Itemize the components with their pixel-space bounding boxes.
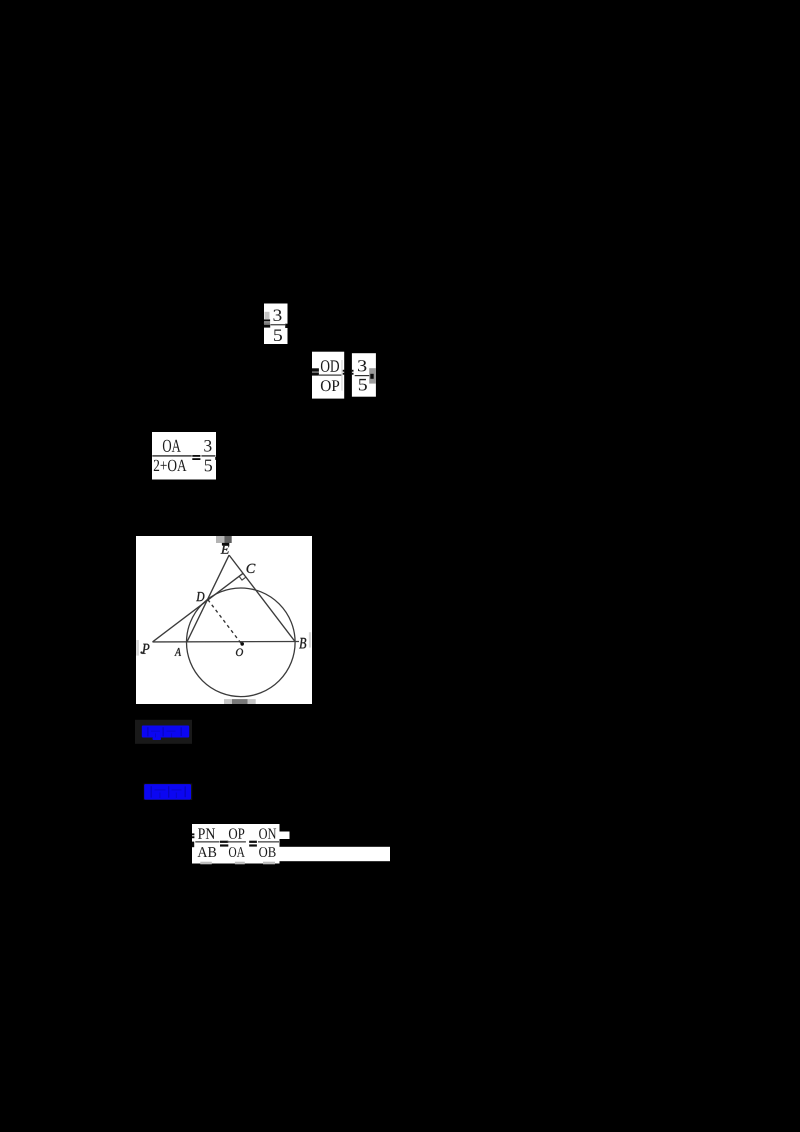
numerator PN — [198, 828, 215, 839]
right caret bar — [309, 632, 311, 647]
fraction bar — [355, 375, 370, 376]
fraction bar 3 — [258, 841, 279, 842]
denominator 5 — [359, 379, 367, 391]
formula "OA/(2+OA)=3/5," white box — [152, 432, 216, 480]
label P — [142, 644, 150, 654]
fraction bar — [201, 455, 215, 456]
equals sign — [192, 455, 200, 457]
comma fragment at edge — [215, 457, 216, 460]
denominator OB — [259, 847, 276, 857]
equals 1 — [220, 841, 228, 843]
numerator OP — [229, 828, 244, 839]
denominator OP — [321, 380, 339, 391]
dark notches — [147, 727, 148, 736]
bottom gray selection artifact — [224, 699, 232, 704]
white tab right of ON — [280, 832, 290, 840]
line PB (horizontal through A O B) — [153, 641, 300, 643]
comma on gray block — [370, 374, 373, 379]
second equals fragment left part — [343, 370, 345, 372]
numerator ON — [259, 828, 276, 839]
faint gray strip — [341, 360, 343, 391]
denominator OA — [229, 847, 245, 857]
tangent line P-D-C — [153, 573, 243, 642]
blue label block 2 background — [144, 784, 193, 800]
white band right of OB — [280, 847, 391, 861]
numerator 3 — [274, 310, 282, 322]
second equals fragment right part — [352, 370, 354, 372]
blue label block 1 background — [135, 720, 192, 744]
label A — [175, 648, 182, 656]
fraction bar — [271, 324, 286, 325]
fraction bar 1 — [195, 841, 219, 842]
blue descender tail — [153, 737, 162, 740]
label O — [236, 649, 243, 657]
dark notches — [151, 786, 152, 797]
top gray selection artifact — [216, 536, 224, 543]
period before P — [140, 651, 142, 653]
blue text mass — [144, 784, 191, 800]
dashed radius D-O — [208, 600, 241, 643]
comma — [285, 324, 287, 328]
numerator 3 — [204, 440, 211, 452]
denominator AB — [198, 847, 217, 857]
equals sign — [312, 368, 319, 371]
equals 2 — [249, 841, 257, 843]
circle O — [187, 588, 296, 697]
label C — [247, 564, 256, 573]
main fraction bar — [152, 455, 192, 456]
equals sign fragment — [264, 319, 270, 321]
leading bar fragment — [192, 842, 194, 848]
fraction bar 2 — [227, 841, 246, 842]
geometry figure white box — [136, 536, 312, 704]
numerator OA — [163, 440, 181, 452]
formula "PN/AB=OP/OA=ON/OB" white box — [192, 824, 280, 864]
formula fragment "=3/5," white box — [264, 304, 288, 345]
bottom gray selection patches — [200, 862, 212, 865]
right angle mark at C — [239, 573, 246, 580]
blue text mass — [142, 726, 189, 738]
secant line A-D-E — [187, 555, 229, 642]
numerator 3 — [358, 360, 366, 371]
numerator OD — [321, 360, 339, 372]
label E — [221, 545, 230, 553]
line E-C-B — [229, 555, 295, 641]
label D — [196, 592, 204, 601]
denominator 2+OA — [154, 460, 187, 472]
gray selection block — [369, 368, 376, 383]
formula "=OD/OP=3/5," right white box — [352, 353, 376, 397]
center dot O — [240, 642, 244, 646]
denominator 5 — [274, 330, 282, 342]
gray selection block — [265, 312, 270, 319]
label B — [299, 638, 306, 649]
leading equals fragment — [192, 833, 194, 835]
formula "=OD/OP=3/5," left white box — [312, 352, 344, 399]
denominator 5 — [205, 460, 212, 472]
fraction bar — [319, 375, 341, 376]
left caret bar — [136, 640, 139, 656]
